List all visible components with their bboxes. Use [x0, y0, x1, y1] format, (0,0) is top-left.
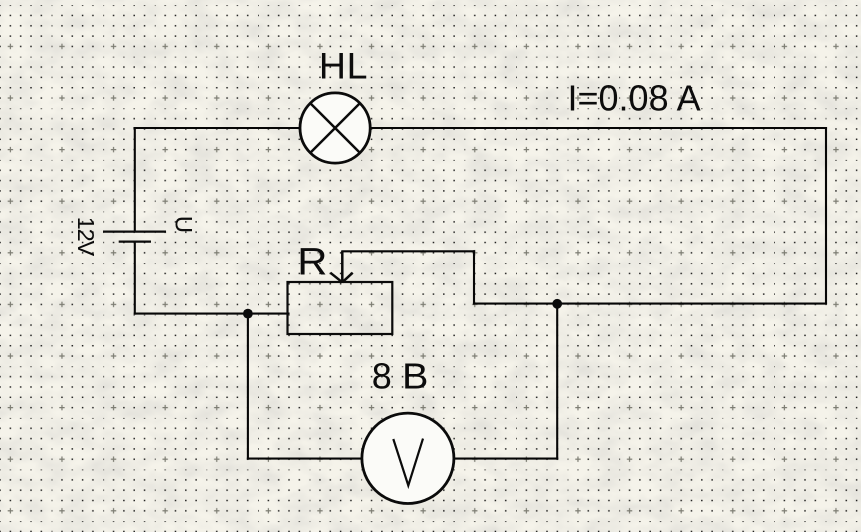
wire: vertical from node B down to voltmeter loop — [556, 304, 558, 459]
wire: top-left horizontal from battery branch to lamp HL — [135, 127, 300, 129]
wire: left vertical from battery negative plate down to bottom node row — [134, 243, 136, 314]
voltmeter reading label 8 B — [372, 356, 392, 397]
svg-text:I=0.08 A: I=0.08 A — [568, 78, 701, 119]
svg-text:8: 8 — [372, 356, 392, 397]
svg-text:HL: HL — [319, 45, 368, 87]
current label I=0.08 A — [568, 78, 701, 119]
wire: vertical from node A down to voltmeter loop — [247, 314, 249, 459]
lamp HL cross — [310, 103, 361, 154]
battery GB1 positive plate (long) — [103, 230, 166, 232]
voltmeter PV1 V symbol — [393, 439, 423, 486]
lamp HL circle — [300, 93, 370, 163]
wire: bottom horizontal from voltmeter PV1 to right branch — [454, 458, 558, 460]
svg-text:12V: 12V — [73, 217, 99, 257]
wire: right vertical side — [825, 128, 827, 304]
wire: top horizontal from lamp HL to right side — [371, 127, 826, 129]
wire: lower-right horizontal from rheostat wiper corner to right side — [474, 303, 826, 305]
voltmeter PV1 circle — [362, 413, 454, 503]
lamp label HL — [319, 45, 368, 87]
wire: rheostat wiper horizontal wire — [342, 250, 474, 252]
wire: horizontal from battery branch to resistor R left terminal — [135, 313, 289, 315]
battery value label 12V (rotated) — [73, 217, 99, 257]
battery net label U (rotated) — [170, 216, 197, 233]
svg-text:U: U — [170, 216, 197, 233]
node A junction dot — [243, 309, 253, 319]
resistor label R — [297, 241, 327, 283]
node B junction dot — [552, 299, 562, 309]
battery GB1 negative plate (short) — [119, 240, 151, 242]
wire: rheostat wiper vertical drop to lower-right wire — [473, 251, 475, 303]
resistor R body (rheostat) — [288, 282, 393, 334]
svg-text:R: R — [297, 241, 327, 283]
wire: bottom horizontal from left branch to voltmeter PV1 — [248, 458, 362, 460]
svg-text:B: B — [402, 357, 428, 397]
wire: left vertical from top wire down to battery positive plate — [134, 128, 136, 231]
resistor R wiper arrow — [330, 251, 352, 282]
voltmeter unit label B — [402, 357, 428, 397]
